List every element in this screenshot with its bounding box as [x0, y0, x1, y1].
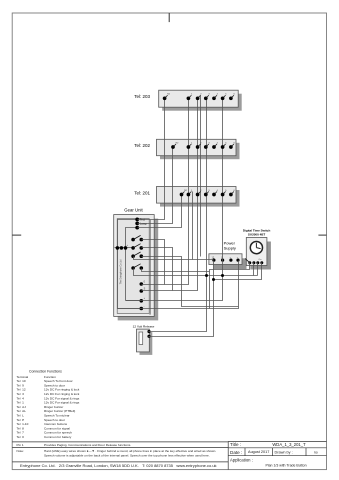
wire gear row3 left to PSU 12	[134, 257, 214, 260]
svg-text:Provides Paging, Communication: Provides Paging, Communications and Door…	[44, 443, 131, 447]
tel 202 terminals	[171, 142, 235, 149]
svg-text:Tel: 202: Tel: 202	[134, 143, 150, 148]
wire gear minus to PSU t4	[118, 261, 239, 309]
telephone unit 203	[134, 90, 241, 111]
clock face	[250, 242, 262, 254]
wire gear row4 left 0V line to time switch t3	[134, 269, 258, 276]
wire bus 5 to PSU 0 and gear plus	[126, 99, 223, 301]
footer rules	[12, 441, 228, 443]
gear unit	[114, 207, 159, 320]
telephone unit 202	[134, 139, 239, 159]
wire bus 2 to gear S	[142, 99, 198, 291]
wire Prot left branch to minus	[118, 220, 138, 309]
wire tel201 call to gear dot3	[138, 195, 182, 228]
wire left junction row	[115, 247, 134, 249]
svg-text:Common for battery: Common for battery	[44, 435, 72, 439]
svg-text:Tel: 203: Tel: 203	[134, 94, 150, 99]
release terminals	[147, 330, 150, 338]
wire time switch t3 drop to 0V line	[257, 263, 259, 276]
svg-text:12 Volt Release: 12 Volt Release	[133, 325, 155, 329]
wire gear row4 right to time switch t1	[142, 269, 210, 272]
telephone unit 201	[134, 187, 239, 207]
tick left centre	[12, 234, 21, 236]
svg-text:Plan 1/3 with Trade Button: Plan 1/3 with Trade Button	[265, 463, 306, 467]
wire tel203 call to gear Prot	[138, 99, 165, 220]
wire bus stub 3a to row3-left line	[192, 192, 194, 260]
svg-text:Entryphone Co. Ltd. 2/3 Gran: Entryphone Co. Ltd. 2/3 Granville Road, …	[20, 463, 217, 468]
psu terminals	[212, 259, 239, 262]
wire gear row1 drop to 0 line	[142, 240, 165, 285]
wire bus 4 to PSU 12 and release bottom	[149, 261, 214, 337]
time switch terminals	[248, 261, 263, 264]
svg-text:ko: ko	[314, 450, 318, 454]
title block	[228, 441, 326, 469]
gear switch row4	[131, 264, 143, 270]
gear terminals top	[135, 218, 139, 230]
wire line B PSU 12 to time switch t4	[214, 263, 262, 280]
gear switch row2	[131, 244, 143, 250]
wire gear row3 right drop	[142, 257, 239, 307]
svg-text:Pin 1: Pin 1	[17, 443, 24, 447]
tick top centre	[168, 13, 170, 22]
svg-text:Application :: Application :	[230, 458, 253, 463]
wire time switch t1 drop	[210, 263, 250, 309]
wire minus line inside	[118, 308, 142, 310]
note rows	[17, 443, 217, 458]
gear left junction dots	[116, 246, 128, 250]
svg-text:Date :: Date :	[230, 450, 242, 455]
wire time switch t2 drop	[253, 263, 255, 276]
power supply	[209, 241, 247, 270]
tel 203 terminals	[163, 94, 236, 101]
svg-text:Gear Unit: Gear Unit	[124, 207, 143, 212]
svg-text:Speech volume is adjustable on: Speech volume is adjustable on the back …	[44, 454, 210, 458]
gear lower terminals	[140, 282, 144, 310]
gear internal wires	[115, 220, 142, 309]
wire gear row2 to S line	[142, 248, 173, 291]
svg-text:Connection Functions: Connection Functions	[29, 370, 62, 374]
wire plus line inside	[126, 300, 142, 302]
tel 201 terminals	[180, 190, 236, 197]
svg-text:WDA_1_3_201_T: WDA_1_3_201_T	[272, 442, 306, 447]
wire bus 3 to release top	[149, 99, 207, 332]
legend connection functions	[17, 370, 80, 439]
svg-text:The Entryphone Co Ltd: The Entryphone Co Ltd	[120, 259, 123, 284]
svg-text:SU2000 4BT: SU2000 4BT	[248, 233, 266, 237]
gear switch row1	[131, 235, 143, 241]
svg-text:Supply: Supply	[224, 246, 236, 251]
svg-text:Tel: 201: Tel: 201	[134, 190, 150, 195]
wire tel202 call to gear Lamp	[138, 147, 173, 224]
wire dot3 left branch to plus	[126, 228, 138, 301]
wire bus stub 2a to row3 line	[200, 96, 202, 257]
wire bus 1 to gear 0	[142, 99, 189, 285]
junction dots	[205, 274, 224, 281]
digital time switch	[243, 229, 271, 270]
svg-text:August 2017: August 2017	[248, 450, 269, 454]
svg-text:Drawn by :: Drawn by :	[275, 450, 293, 454]
svg-text:Hard (LINE) easy wires shown ●: Hard (LINE) easy wires shown ●—▼ . Finge…	[44, 449, 216, 453]
svg-text:Note:: Note:	[17, 449, 25, 453]
tick right centre	[318, 234, 326, 236]
svg-text:Title :: Title :	[230, 442, 241, 447]
time switch lever	[245, 259, 250, 263]
gear switch row3	[131, 252, 143, 258]
svg-text:Tel 0: Tel 0	[17, 435, 25, 439]
12 volt release	[133, 325, 155, 355]
